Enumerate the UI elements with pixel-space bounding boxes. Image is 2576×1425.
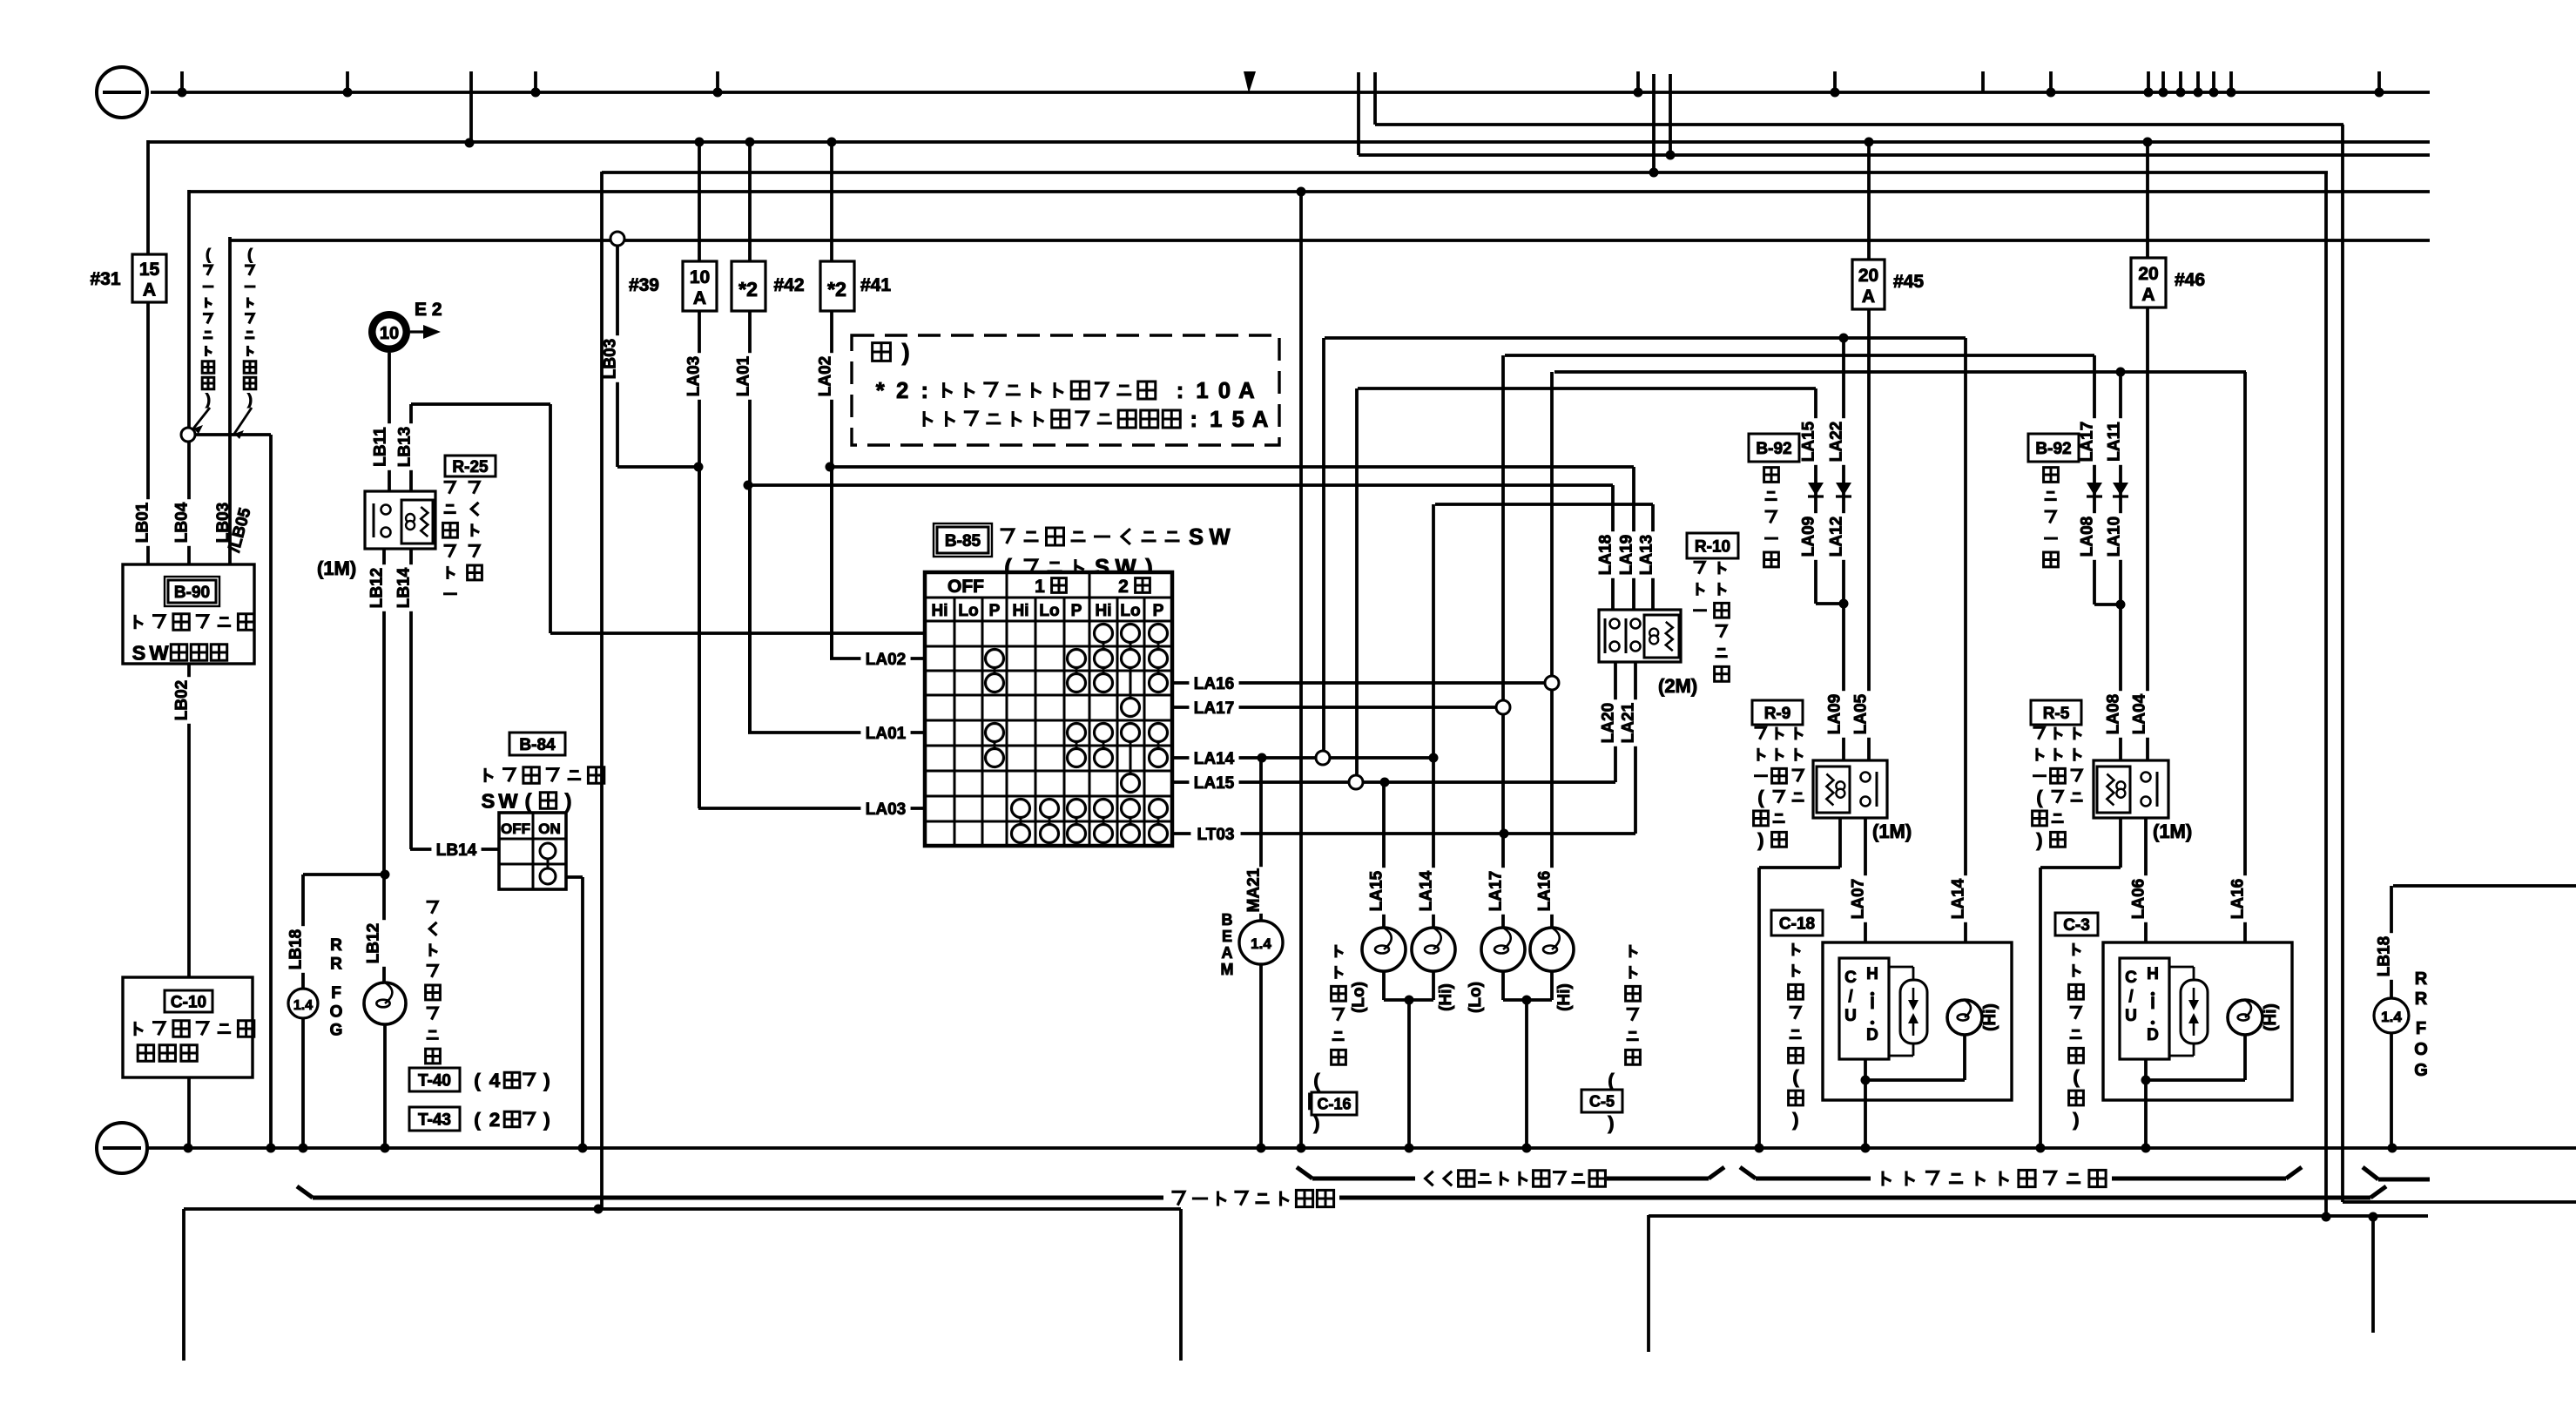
svg-text:LA09: LA09 bbox=[1799, 517, 1817, 557]
svg-text:LB03: LB03 bbox=[601, 339, 619, 379]
svg-text:LB18: LB18 bbox=[2375, 936, 2393, 976]
svg-text:LB14: LB14 bbox=[394, 567, 413, 608]
svg-text:): ) bbox=[565, 789, 572, 812]
svg-text:): ) bbox=[247, 391, 253, 409]
svg-text:1.4: 1.4 bbox=[2381, 1009, 2402, 1025]
svg-text:Lo: Lo bbox=[1120, 602, 1140, 620]
svg-text:LA04: LA04 bbox=[2130, 693, 2148, 734]
svg-text:LA16: LA16 bbox=[1535, 871, 1554, 911]
svg-text:C: C bbox=[2125, 969, 2137, 987]
svg-text:A: A bbox=[1238, 379, 1254, 403]
svg-text:2: 2 bbox=[1118, 577, 1129, 597]
svg-text:LT03: LT03 bbox=[1197, 826, 1235, 844]
svg-text:B-84: B-84 bbox=[519, 736, 556, 754]
svg-text:(: ( bbox=[474, 1070, 481, 1091]
svg-text:LA08: LA08 bbox=[2104, 694, 2122, 734]
svg-text:Hi: Hi bbox=[1013, 602, 1029, 620]
svg-text:R-9: R-9 bbox=[1764, 705, 1791, 723]
svg-text:LB01: LB01 bbox=[133, 502, 152, 543]
svg-text:LA18: LA18 bbox=[1596, 535, 1615, 575]
svg-text:R: R bbox=[2415, 989, 2428, 1009]
svg-text:B-92: B-92 bbox=[2035, 440, 2071, 458]
svg-text:1: 1 bbox=[1210, 408, 1222, 432]
svg-text:*: * bbox=[876, 379, 885, 403]
svg-text:): ) bbox=[1757, 829, 1763, 850]
svg-text:(Lo): (Lo) bbox=[1350, 982, 1368, 1013]
svg-text:I: I bbox=[1870, 995, 1874, 1013]
svg-text::: : bbox=[1190, 408, 1198, 432]
svg-text:I: I bbox=[2150, 995, 2155, 1013]
svg-text:20: 20 bbox=[1858, 266, 1878, 286]
svg-text:W: W bbox=[498, 789, 518, 812]
svg-text:LB14: LB14 bbox=[436, 841, 477, 860]
svg-text:0: 0 bbox=[1218, 379, 1231, 403]
svg-text:LA06: LA06 bbox=[2129, 879, 2148, 919]
svg-text:10: 10 bbox=[690, 267, 710, 287]
svg-text:LB02: LB02 bbox=[172, 680, 191, 720]
svg-text:P: P bbox=[989, 602, 1001, 620]
svg-text:(: ( bbox=[247, 246, 253, 263]
svg-text:Lo: Lo bbox=[1039, 602, 1059, 620]
svg-text:R-25: R-25 bbox=[452, 458, 489, 476]
svg-text:Hi: Hi bbox=[932, 602, 948, 620]
svg-text:1.4: 1.4 bbox=[1251, 935, 1271, 952]
svg-text:OFF: OFF bbox=[501, 821, 530, 837]
svg-text:LA03: LA03 bbox=[866, 800, 906, 819]
svg-text:LA10: LA10 bbox=[2105, 517, 2123, 557]
svg-text:LA01: LA01 bbox=[866, 725, 907, 743]
svg-text:C-5: C-5 bbox=[1589, 1092, 1615, 1110]
svg-text:(1M): (1M) bbox=[1872, 821, 1912, 842]
svg-text:(: ( bbox=[525, 789, 532, 812]
svg-text:P: P bbox=[1071, 602, 1082, 620]
svg-text:5: 5 bbox=[1232, 408, 1244, 432]
svg-text:LA09: LA09 bbox=[1825, 694, 1844, 734]
svg-text:LA16: LA16 bbox=[1194, 675, 1234, 693]
svg-text:*2: *2 bbox=[738, 278, 758, 301]
svg-text:LA08: LA08 bbox=[2078, 517, 2096, 557]
svg-text:D: D bbox=[1866, 1026, 1878, 1044]
svg-text:T-40: T-40 bbox=[418, 1071, 451, 1090]
svg-text:(Hi): (Hi) bbox=[1437, 983, 1455, 1011]
svg-text:): ) bbox=[1608, 1112, 1614, 1133]
svg-text:1.4: 1.4 bbox=[293, 998, 313, 1013]
svg-text:LB11: LB11 bbox=[371, 427, 389, 467]
svg-text:LA21: LA21 bbox=[1619, 702, 1637, 743]
svg-text:A: A bbox=[1862, 287, 1875, 307]
svg-text:F: F bbox=[331, 984, 341, 1003]
svg-text:20: 20 bbox=[2138, 264, 2158, 284]
svg-text:LA12: LA12 bbox=[1827, 517, 1845, 557]
svg-text:E: E bbox=[1222, 928, 1232, 945]
svg-text:(: ( bbox=[2073, 1067, 2080, 1088]
svg-text:B-90: B-90 bbox=[174, 584, 210, 602]
svg-text:C-10: C-10 bbox=[171, 993, 206, 1011]
svg-text:(1M): (1M) bbox=[317, 557, 356, 579]
svg-text:Hi: Hi bbox=[1096, 602, 1112, 620]
svg-text:/: / bbox=[1848, 988, 1853, 1006]
svg-text:R-5: R-5 bbox=[2043, 705, 2070, 723]
svg-text:#46: #46 bbox=[2175, 270, 2205, 290]
svg-text:C-18: C-18 bbox=[1779, 915, 1815, 933]
svg-text:R: R bbox=[330, 955, 342, 973]
svg-text:S: S bbox=[482, 789, 496, 812]
svg-text:(: ( bbox=[474, 1109, 481, 1131]
svg-text:): ) bbox=[543, 1070, 550, 1091]
svg-text:B: B bbox=[1222, 911, 1233, 929]
svg-text:S: S bbox=[1189, 525, 1204, 550]
svg-text:LA02: LA02 bbox=[816, 356, 834, 396]
svg-text:LA17: LA17 bbox=[2078, 422, 2096, 462]
svg-text:(Hi): (Hi) bbox=[1981, 1003, 1999, 1031]
svg-text:15: 15 bbox=[139, 260, 160, 280]
svg-text:#39: #39 bbox=[629, 275, 659, 295]
svg-text:B-85: B-85 bbox=[945, 532, 981, 550]
svg-text:Lo: Lo bbox=[958, 602, 978, 620]
svg-text:LA15: LA15 bbox=[1194, 774, 1235, 793]
svg-text:LA15: LA15 bbox=[1367, 870, 1386, 911]
svg-text:D: D bbox=[2147, 1026, 2159, 1044]
svg-text:LA03: LA03 bbox=[684, 356, 703, 396]
svg-text:(Hi): (Hi) bbox=[2262, 1003, 2280, 1031]
svg-text:O: O bbox=[330, 1003, 343, 1021]
svg-text:S: S bbox=[132, 641, 146, 664]
svg-text:LA07: LA07 bbox=[1849, 879, 1867, 919]
svg-text:): ) bbox=[1792, 1109, 1798, 1130]
svg-text:(: ( bbox=[1313, 1070, 1320, 1091]
svg-text:LA16: LA16 bbox=[2229, 879, 2247, 919]
svg-text:1: 1 bbox=[1196, 379, 1208, 403]
svg-text:ON: ON bbox=[538, 821, 561, 837]
svg-text:OFF: OFF bbox=[947, 577, 984, 597]
svg-text:LA20: LA20 bbox=[1599, 703, 1617, 743]
svg-text:): ) bbox=[543, 1109, 550, 1131]
svg-text:LB04: LB04 bbox=[172, 502, 191, 543]
svg-text:W: W bbox=[1209, 525, 1231, 550]
svg-text:LA19: LA19 bbox=[1617, 535, 1635, 575]
svg-text:(: ( bbox=[1792, 1067, 1799, 1088]
svg-text:): ) bbox=[902, 339, 910, 365]
svg-text:4: 4 bbox=[489, 1070, 501, 1091]
svg-text:1: 1 bbox=[1035, 577, 1045, 597]
svg-text:A: A bbox=[143, 280, 156, 300]
svg-text:LA13: LA13 bbox=[1637, 535, 1656, 575]
svg-text:A: A bbox=[1222, 944, 1233, 962]
svg-text:10: 10 bbox=[380, 324, 399, 343]
svg-text:LA05: LA05 bbox=[1851, 693, 1870, 734]
svg-text:LA01: LA01 bbox=[734, 355, 752, 396]
svg-text:LA17: LA17 bbox=[1487, 871, 1505, 911]
svg-text:LA22: LA22 bbox=[1827, 422, 1845, 462]
svg-text:(2M): (2M) bbox=[1658, 675, 1697, 697]
svg-text:E 2: E 2 bbox=[415, 300, 442, 320]
svg-text:2: 2 bbox=[489, 1109, 500, 1131]
svg-text:R: R bbox=[330, 936, 342, 955]
svg-text:F: F bbox=[2416, 1019, 2426, 1038]
svg-text:C-16: C-16 bbox=[1317, 1095, 1351, 1112]
svg-text:W: W bbox=[149, 641, 169, 664]
svg-text:LA14: LA14 bbox=[1194, 750, 1235, 768]
svg-text:C-3: C-3 bbox=[2063, 916, 2090, 935]
svg-text:O: O bbox=[2414, 1040, 2428, 1059]
svg-text:A: A bbox=[1252, 408, 1268, 432]
svg-text:LB18: LB18 bbox=[287, 929, 305, 969]
svg-text:LA14: LA14 bbox=[1417, 870, 1435, 911]
svg-text:M: M bbox=[1221, 961, 1234, 978]
svg-text:MA21: MA21 bbox=[1244, 868, 1263, 912]
svg-text:LB12: LB12 bbox=[364, 923, 382, 963]
svg-text:G: G bbox=[330, 1022, 343, 1040]
svg-text:G: G bbox=[2414, 1061, 2428, 1080]
svg-text:(Lo): (Lo) bbox=[1467, 982, 1485, 1013]
svg-text:(: ( bbox=[2036, 787, 2043, 808]
svg-text:LB13: LB13 bbox=[395, 427, 414, 467]
svg-text::: : bbox=[921, 379, 929, 403]
svg-text:/: / bbox=[2128, 988, 2134, 1006]
svg-text:(Hi): (Hi) bbox=[1555, 983, 1574, 1011]
svg-text:2: 2 bbox=[896, 379, 908, 403]
svg-text:LA15: LA15 bbox=[1799, 421, 1817, 462]
svg-text:A: A bbox=[693, 288, 706, 308]
svg-text:R: R bbox=[2415, 969, 2428, 989]
svg-text:R-10: R-10 bbox=[1695, 537, 1730, 556]
svg-text:(1M): (1M) bbox=[2153, 821, 2192, 842]
svg-text:#31: #31 bbox=[90, 269, 120, 289]
svg-text:): ) bbox=[2073, 1109, 2079, 1130]
svg-text:): ) bbox=[2036, 829, 2042, 850]
svg-text:LB12: LB12 bbox=[368, 568, 386, 608]
svg-text:T-43: T-43 bbox=[418, 1111, 451, 1129]
svg-text:B-92: B-92 bbox=[1756, 440, 1791, 458]
svg-text:(: ( bbox=[1757, 787, 1764, 808]
svg-text:A: A bbox=[2141, 285, 2155, 305]
svg-text:#42: #42 bbox=[773, 275, 804, 295]
svg-text:C: C bbox=[1844, 969, 1857, 987]
svg-text:LA14: LA14 bbox=[1949, 878, 1967, 919]
svg-text:(: ( bbox=[1608, 1070, 1615, 1091]
svg-text:LA02: LA02 bbox=[866, 651, 906, 669]
svg-text:H: H bbox=[2147, 965, 2159, 983]
svg-text:LA17: LA17 bbox=[1194, 699, 1234, 718]
svg-text::: : bbox=[1177, 379, 1184, 403]
svg-text:P: P bbox=[1153, 602, 1164, 620]
svg-text:H: H bbox=[1866, 965, 1878, 983]
svg-text:(: ( bbox=[206, 246, 211, 263]
svg-text:#41: #41 bbox=[860, 275, 891, 295]
svg-text:*2: *2 bbox=[827, 278, 846, 301]
svg-text:U: U bbox=[1844, 1007, 1857, 1025]
svg-text:LA11: LA11 bbox=[2105, 422, 2123, 462]
svg-text:): ) bbox=[206, 391, 211, 409]
svg-text:#45: #45 bbox=[1893, 272, 1924, 292]
svg-text:U: U bbox=[2125, 1007, 2137, 1025]
